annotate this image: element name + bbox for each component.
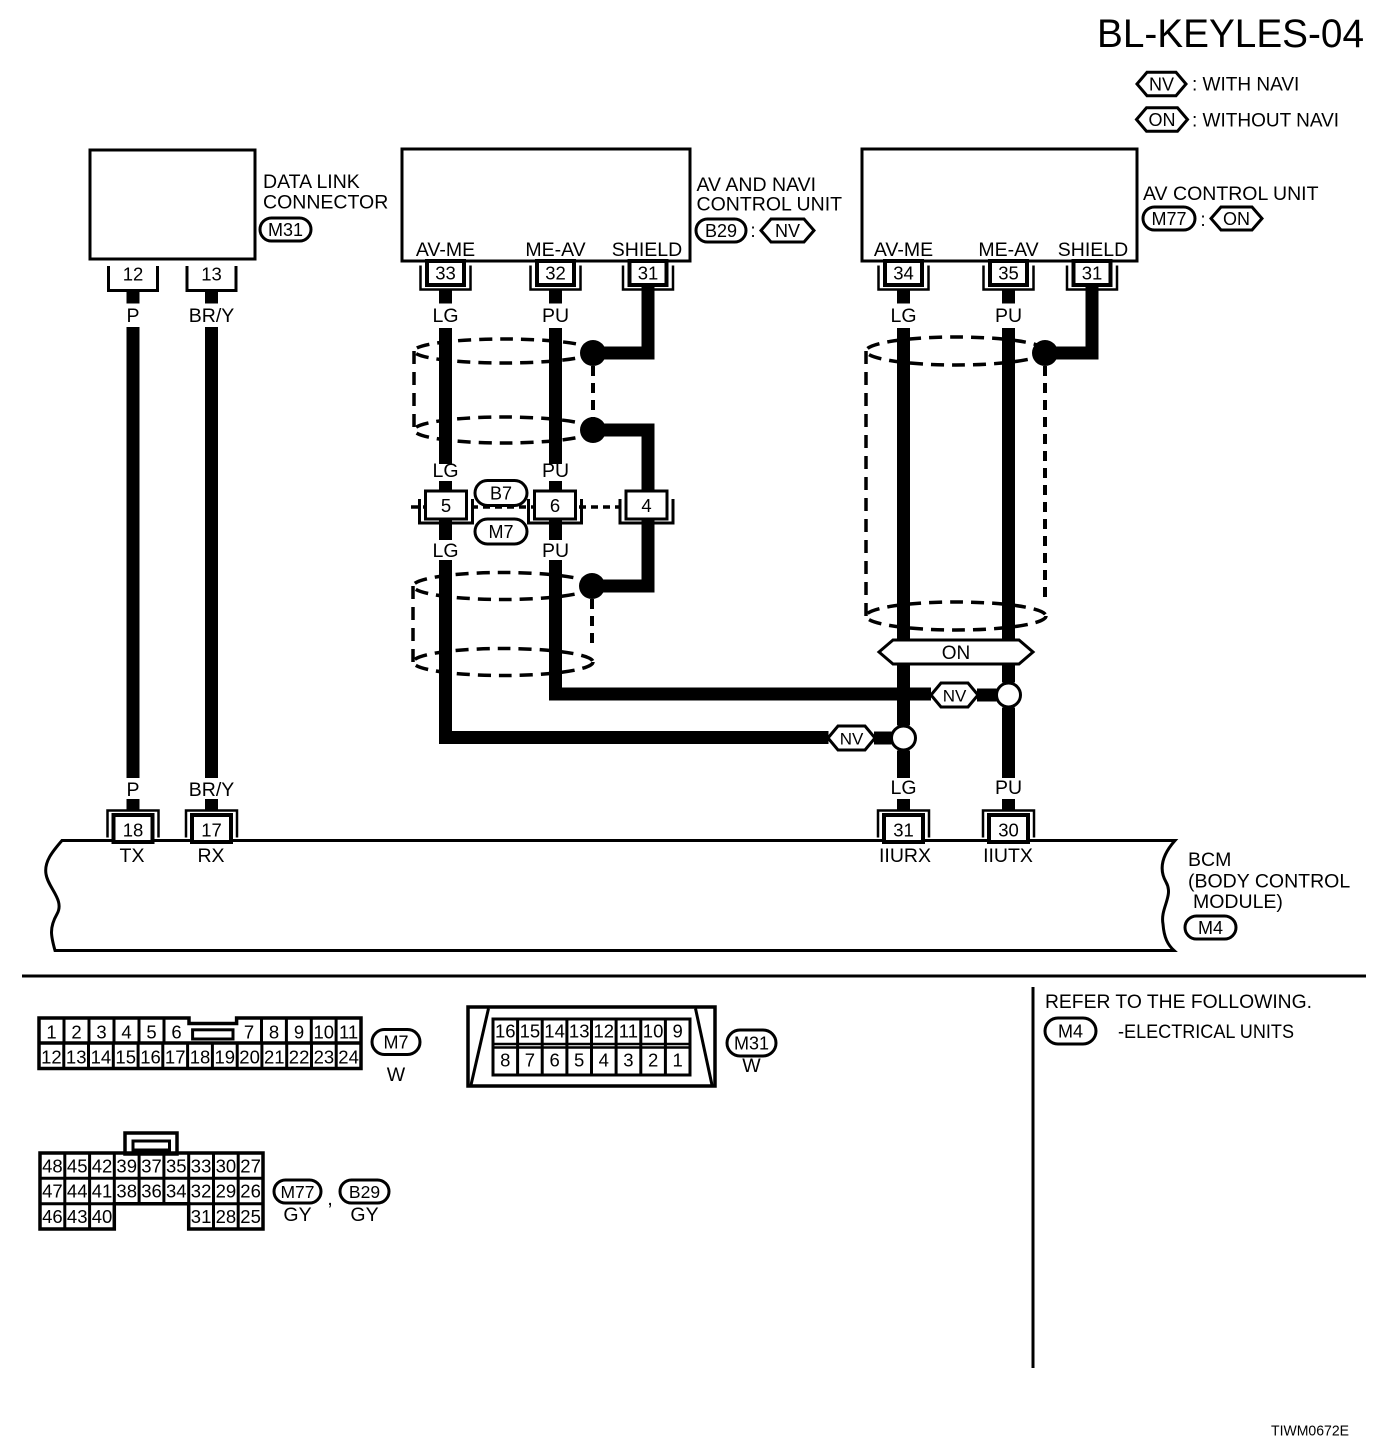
wire PU lower run + turn right xyxy=(549,560,562,701)
svg-text:9: 9 xyxy=(673,1021,683,1042)
svg-text::: : xyxy=(750,221,755,242)
shield cylinder 2 (B29 pair lower) xyxy=(413,573,593,676)
svg-text:M4: M4 xyxy=(1058,1022,1083,1042)
mating dashed line xyxy=(411,505,620,509)
svg-text:W: W xyxy=(387,1064,406,1086)
pin 31 (BCM) xyxy=(897,799,910,811)
svg-text:ME-AV: ME-AV xyxy=(525,239,585,261)
pin 32 xyxy=(531,266,581,290)
svg-text:16: 16 xyxy=(495,1021,516,1042)
svg-text:37: 37 xyxy=(141,1156,162,1177)
svg-text:1: 1 xyxy=(46,1022,56,1043)
svg-text:6: 6 xyxy=(550,495,560,516)
svg-text:4: 4 xyxy=(599,1050,609,1071)
svg-text:44: 44 xyxy=(67,1181,88,1202)
svg-text:10: 10 xyxy=(314,1022,335,1043)
shield drain wire M77-31 xyxy=(1086,286,1099,360)
svg-text:8: 8 xyxy=(500,1050,510,1071)
svg-text:AV CONTROL UNIT: AV CONTROL UNIT xyxy=(1143,183,1319,205)
wire NV-link to junction circle (upper) xyxy=(977,689,997,702)
svg-text:29: 29 xyxy=(216,1181,237,1202)
svg-text:NV: NV xyxy=(775,221,800,241)
svg-text:47: 47 xyxy=(42,1181,63,1202)
svg-text:LG: LG xyxy=(890,305,916,327)
svg-text:40: 40 xyxy=(92,1206,113,1227)
pin 13 xyxy=(187,266,236,291)
connector ref B29 (face) xyxy=(340,1180,389,1203)
svg-text:3: 3 xyxy=(623,1050,633,1071)
svg-text:12: 12 xyxy=(41,1047,62,1068)
svg-text:B29: B29 xyxy=(705,221,737,241)
svg-text:14: 14 xyxy=(544,1021,565,1042)
svg-text:2: 2 xyxy=(71,1022,81,1043)
svg-text:ON: ON xyxy=(1223,209,1250,229)
svg-text:7: 7 xyxy=(525,1050,535,1071)
svg-text:3: 3 xyxy=(96,1022,106,1043)
svg-text:BL-KEYLES-04: BL-KEYLES-04 xyxy=(1097,12,1364,56)
shield drain dashed link 1 xyxy=(591,366,595,418)
svg-text:ON: ON xyxy=(1149,110,1176,130)
svg-text:17: 17 xyxy=(165,1047,186,1068)
junction dot 3 xyxy=(579,573,605,599)
wire LG stub below splice 5 xyxy=(439,519,452,540)
svg-text:RX: RX xyxy=(197,845,224,867)
shield segment between dots xyxy=(593,424,655,437)
svg-text:PU: PU xyxy=(995,777,1022,799)
flag ON for M77 xyxy=(1211,207,1262,230)
svg-text:13: 13 xyxy=(569,1021,590,1042)
svg-text:2: 2 xyxy=(648,1050,658,1071)
wire PU from M77-35 xyxy=(1002,328,1015,640)
connector ref M4 xyxy=(1185,916,1236,939)
svg-text:24: 24 xyxy=(338,1047,359,1068)
pin 31 (B29 shield) xyxy=(623,266,673,290)
svg-text:IIUTX: IIUTX xyxy=(983,845,1033,867)
svg-text:,: , xyxy=(327,1188,333,1210)
svg-text:LG: LG xyxy=(432,305,458,327)
wire BR/Y vertical xyxy=(205,327,218,778)
shield cylinder 3 (M77 pair) xyxy=(866,337,1046,630)
svg-text:GY: GY xyxy=(283,1204,311,1226)
wire PU from B29-32 upper xyxy=(549,328,562,464)
wire LG lower run + turn right xyxy=(439,560,452,744)
svg-text:CONTROL UNIT: CONTROL UNIT xyxy=(697,194,843,216)
wire LG stub above splice 5 xyxy=(439,481,452,491)
svg-text:25: 25 xyxy=(240,1206,261,1227)
BCM box xyxy=(46,841,1175,951)
NV flag upper xyxy=(931,683,978,707)
svg-text:IIURX: IIURX xyxy=(879,845,931,867)
svg-text:35: 35 xyxy=(166,1156,187,1177)
svg-text:AV-ME: AV-ME xyxy=(874,239,933,261)
wire P vertical xyxy=(127,327,140,778)
svg-text:M4: M4 xyxy=(1198,918,1223,938)
svg-text:41: 41 xyxy=(92,1181,113,1202)
junction dot 1 xyxy=(580,340,606,366)
svg-text:20: 20 xyxy=(239,1047,260,1068)
pin 30 (BCM) xyxy=(1002,799,1015,811)
wire NV-link to junction circle (lower) xyxy=(874,732,892,745)
svg-text:34: 34 xyxy=(166,1181,187,1202)
svg-text:SHIELD: SHIELD xyxy=(612,239,682,261)
junction dot 2 xyxy=(580,417,606,443)
svg-text:22: 22 xyxy=(289,1047,310,1068)
pin 18 xyxy=(127,799,140,811)
pin 35 xyxy=(984,266,1034,290)
svg-text:PU: PU xyxy=(542,305,569,327)
ON flag banner xyxy=(879,640,1033,664)
connector ref M7 xyxy=(475,519,527,544)
unit box AV AND NAVI CONTROL UNIT xyxy=(402,149,690,261)
svg-text:11: 11 xyxy=(339,1022,358,1043)
svg-text:1: 1 xyxy=(673,1050,683,1071)
svg-text:31: 31 xyxy=(1082,263,1103,284)
junction circle upper (node IIUTX) xyxy=(997,683,1021,707)
wire LG from B29-33 upper xyxy=(439,328,452,464)
svg-text:12: 12 xyxy=(123,264,144,285)
svg-text:31: 31 xyxy=(191,1206,212,1227)
connector ref B29 xyxy=(696,219,746,242)
shield segment below splice 4 xyxy=(642,519,655,593)
connector face M7 xyxy=(39,1018,361,1069)
svg-text:38: 38 xyxy=(116,1181,137,1202)
svg-text:BCM: BCM xyxy=(1188,849,1231,871)
splice connector 4 xyxy=(620,499,673,523)
svg-text:REFER TO THE FOLLOWING.: REFER TO THE FOLLOWING. xyxy=(1045,991,1312,1013)
wire PU stub above splice 6 xyxy=(549,481,562,491)
svg-text:6: 6 xyxy=(549,1050,559,1071)
svg-text:PU: PU xyxy=(995,305,1022,327)
divider vertical xyxy=(1032,987,1035,1368)
svg-text:27: 27 xyxy=(240,1156,261,1177)
svg-text:M77: M77 xyxy=(280,1182,314,1202)
svg-text:30: 30 xyxy=(216,1156,237,1177)
svg-text:: WITHOUT NAVI: : WITHOUT NAVI xyxy=(1192,111,1339,132)
svg-text:M31: M31 xyxy=(734,1034,769,1054)
svg-text:MODULE): MODULE) xyxy=(1193,891,1283,913)
connector face M31 xyxy=(468,1007,715,1086)
shield cylinder 1 (B29 pair upper) xyxy=(414,339,594,443)
svg-text:5: 5 xyxy=(441,495,451,516)
svg-text:46: 46 xyxy=(42,1206,63,1227)
svg-text:7: 7 xyxy=(244,1022,254,1043)
svg-text:8: 8 xyxy=(269,1022,279,1043)
svg-text:14: 14 xyxy=(91,1047,112,1068)
svg-text:NV: NV xyxy=(840,730,864,749)
svg-text:M77: M77 xyxy=(1151,209,1186,229)
svg-text:9: 9 xyxy=(294,1022,304,1043)
svg-text:TIWM0672E: TIWM0672E xyxy=(1271,1423,1349,1440)
svg-text:6: 6 xyxy=(171,1022,181,1043)
svg-text:21: 21 xyxy=(264,1047,285,1068)
svg-text:18: 18 xyxy=(190,1047,211,1068)
svg-text:M7: M7 xyxy=(383,1033,408,1053)
svg-text:4: 4 xyxy=(641,495,651,516)
NV flag lower xyxy=(828,726,875,750)
svg-text:16: 16 xyxy=(140,1047,161,1068)
svg-text:15: 15 xyxy=(520,1021,541,1042)
svg-text:BR/Y: BR/Y xyxy=(189,305,235,327)
svg-text:BR/Y: BR/Y xyxy=(189,779,235,801)
junction dot 4 xyxy=(1032,340,1058,366)
pin 31 (M77 shield) xyxy=(1067,266,1117,290)
svg-text:5: 5 xyxy=(574,1050,584,1071)
pin 12 xyxy=(109,266,158,291)
connector ref M77 (face) xyxy=(274,1180,321,1203)
svg-text:TX: TX xyxy=(120,845,145,867)
shield drain wire B29-31 xyxy=(642,286,655,360)
svg-text:39: 39 xyxy=(116,1156,137,1177)
svg-text:LG: LG xyxy=(890,777,916,799)
pin 17 xyxy=(205,799,218,811)
splice connector 6 xyxy=(529,499,582,523)
svg-text:AV-ME: AV-ME xyxy=(416,239,475,261)
svg-text:10: 10 xyxy=(643,1021,664,1042)
svg-text:B7: B7 xyxy=(490,484,512,504)
svg-text:ON: ON xyxy=(942,643,971,664)
svg-text:5: 5 xyxy=(146,1022,156,1043)
svg-text:: WITH NAVI: : WITH NAVI xyxy=(1192,75,1299,96)
connector ref M4 (note) xyxy=(1045,1018,1096,1044)
svg-text:31: 31 xyxy=(638,263,659,284)
wire LG from M77-34 xyxy=(897,328,910,640)
svg-text:CONNECTOR: CONNECTOR xyxy=(263,192,388,214)
svg-text:4: 4 xyxy=(121,1022,131,1043)
svg-text::: : xyxy=(1200,210,1205,231)
svg-text:31: 31 xyxy=(893,820,914,841)
svg-text:ME-AV: ME-AV xyxy=(978,239,1038,261)
svg-text:36: 36 xyxy=(141,1181,162,1202)
legend ON flag xyxy=(1137,108,1188,132)
flag NV for B29 xyxy=(761,219,814,242)
svg-text:W: W xyxy=(742,1055,761,1077)
svg-text:-ELECTRICAL UNITS: -ELECTRICAL UNITS xyxy=(1118,1022,1294,1043)
svg-text:PU: PU xyxy=(542,460,569,482)
svg-text:18: 18 xyxy=(123,820,144,841)
svg-text:35: 35 xyxy=(998,263,1019,284)
junction circle lower (node IIURX) xyxy=(892,726,916,750)
connector ref M7 (face) xyxy=(372,1030,420,1055)
connector ref B7 xyxy=(475,481,527,506)
svg-text:32: 32 xyxy=(545,263,566,284)
svg-text:15: 15 xyxy=(115,1047,136,1068)
connector ref M31 (face) xyxy=(727,1030,776,1056)
wire PU stub below splice 6 xyxy=(549,519,562,540)
svg-text:33: 33 xyxy=(435,263,456,284)
svg-text:34: 34 xyxy=(893,263,914,284)
svg-text:LG: LG xyxy=(432,460,458,482)
svg-text:P: P xyxy=(126,305,139,327)
svg-text:17: 17 xyxy=(201,820,222,841)
svg-text:M31: M31 xyxy=(268,220,303,240)
shield drain dashed link 2 xyxy=(590,599,594,650)
svg-text:48: 48 xyxy=(42,1156,63,1177)
legend NV flag xyxy=(1137,72,1186,96)
svg-text:43: 43 xyxy=(67,1206,88,1227)
shield drain dashed link 3 xyxy=(1043,366,1047,604)
svg-text:45: 45 xyxy=(67,1156,88,1177)
pin 34 xyxy=(879,266,929,290)
svg-text:GY: GY xyxy=(350,1204,378,1226)
svg-text:23: 23 xyxy=(314,1047,335,1068)
svg-text:SHIELD: SHIELD xyxy=(1058,239,1128,261)
svg-text:NV: NV xyxy=(1149,75,1174,95)
svg-text:NV: NV xyxy=(943,687,967,706)
svg-text:12: 12 xyxy=(594,1021,615,1042)
svg-text:42: 42 xyxy=(92,1156,113,1177)
svg-text:B29: B29 xyxy=(349,1182,380,1202)
splice connector 5 xyxy=(420,499,473,523)
svg-text:13: 13 xyxy=(66,1047,87,1068)
svg-text:(BODY CONTROL: (BODY CONTROL xyxy=(1188,871,1350,893)
connector ref M31 xyxy=(260,218,311,241)
svg-text:19: 19 xyxy=(215,1047,236,1068)
svg-text:PU: PU xyxy=(542,540,569,562)
svg-text:LG: LG xyxy=(432,540,458,562)
svg-text:28: 28 xyxy=(216,1206,237,1227)
svg-text:13: 13 xyxy=(201,264,222,285)
svg-text:11: 11 xyxy=(619,1021,638,1042)
divider horizontal xyxy=(22,975,1366,978)
pin 33 xyxy=(421,266,471,290)
svg-text:P: P xyxy=(126,779,139,801)
svg-text:26: 26 xyxy=(240,1181,261,1202)
svg-text:30: 30 xyxy=(998,820,1019,841)
unit box AV CONTROL UNIT xyxy=(862,149,1137,261)
connector face M77/B29 xyxy=(40,1133,263,1229)
connector ref M77 xyxy=(1143,207,1195,230)
svg-text:DATA LINK: DATA LINK xyxy=(263,171,360,193)
svg-text:32: 32 xyxy=(191,1181,212,1202)
unit box DATA LINK CONNECTOR xyxy=(90,150,255,259)
svg-text:33: 33 xyxy=(191,1156,212,1177)
svg-text:M7: M7 xyxy=(488,522,513,542)
